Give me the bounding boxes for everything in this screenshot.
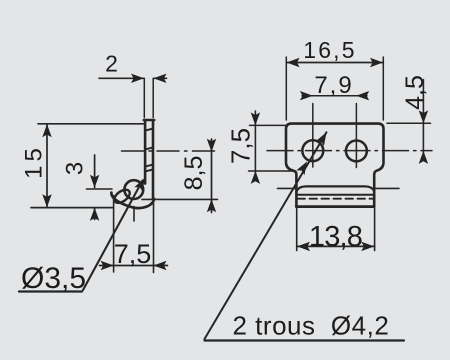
- svg-text:2: 2: [105, 51, 118, 77]
- svg-text:7,9: 7,9: [314, 72, 353, 99]
- svg-text:7,5: 7,5: [114, 239, 152, 269]
- svg-text:3: 3: [62, 162, 89, 175]
- svg-text:15: 15: [21, 144, 48, 179]
- svg-text:16,5: 16,5: [303, 37, 357, 63]
- svg-text:8,5: 8,5: [180, 156, 208, 191]
- svg-text:7,5: 7,5: [226, 128, 256, 164]
- svg-text:2 trous Ø4,2: 2 trous Ø4,2: [233, 311, 390, 341]
- svg-text:13,8: 13,8: [309, 221, 362, 253]
- svg-text:4,5: 4,5: [401, 75, 429, 110]
- svg-text:Ø3,5: Ø3,5: [21, 262, 86, 295]
